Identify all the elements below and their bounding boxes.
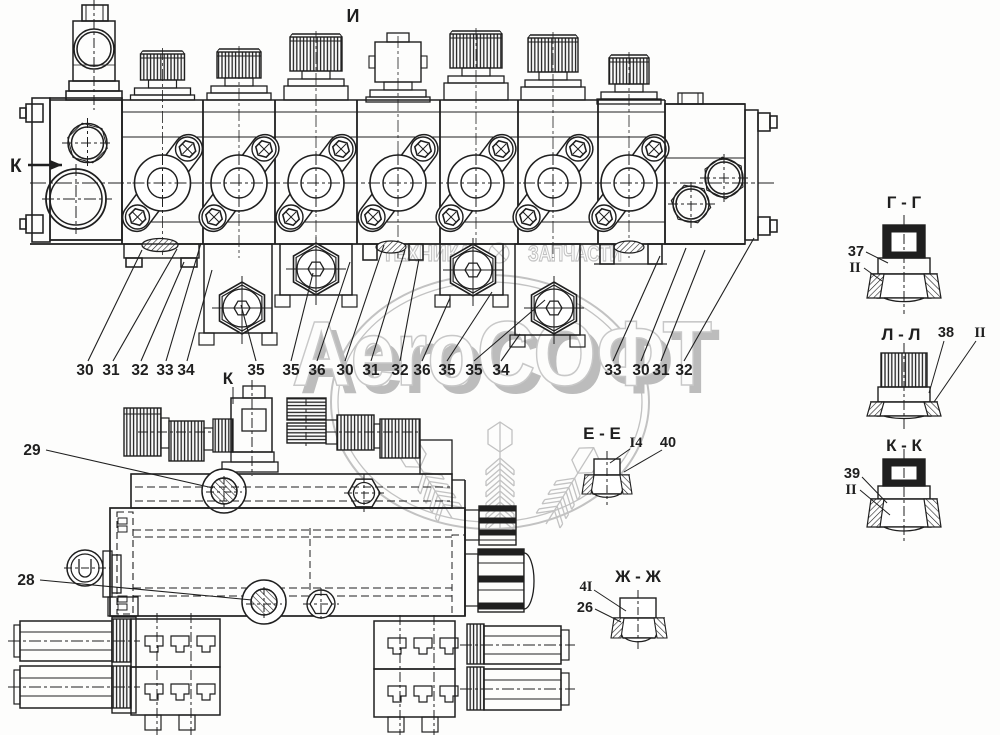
Е-Е plug fitting <box>582 451 632 505</box>
bottom-right cylinders <box>460 624 575 710</box>
svg-text:Г - Г: Г - Г <box>887 193 922 212</box>
section 4 cap <box>366 33 430 258</box>
threaded fitting lower right <box>465 549 534 612</box>
hex bolt on plate <box>344 474 384 512</box>
lower main block <box>110 508 465 616</box>
bottom-right bracket block <box>374 615 458 735</box>
bottom-left cylinder upper <box>8 619 140 662</box>
svg-text:И: И <box>347 6 360 26</box>
svg-text:35: 35 <box>247 362 265 379</box>
left elbow fitting <box>64 550 138 616</box>
left big plug circle <box>42 164 112 234</box>
svg-text:32: 32 <box>131 362 148 379</box>
main valve body <box>30 100 745 244</box>
bottom-left cylinder lower <box>8 666 140 708</box>
boss with bolt 28 <box>242 580 286 624</box>
svg-text:35: 35 <box>438 362 456 379</box>
svg-text:31: 31 <box>652 362 670 379</box>
svg-text:34: 34 <box>177 362 195 379</box>
svg-text:33: 33 <box>156 362 174 379</box>
svg-text:30: 30 <box>76 362 93 379</box>
svg-text:33: 33 <box>604 362 622 379</box>
svg-text:II: II <box>845 482 857 498</box>
section 1 flange <box>117 129 208 237</box>
left small plug circle <box>62 118 113 168</box>
section 7 hatched port <box>594 241 667 264</box>
label K arrow left <box>10 156 62 177</box>
dashed hidden lines <box>135 487 450 501</box>
svg-text:32: 32 <box>675 362 692 379</box>
svg-text:35: 35 <box>465 362 483 379</box>
Ж-Ж plug fitting <box>611 590 667 652</box>
svg-text:37: 37 <box>848 244 864 260</box>
svg-text:26: 26 <box>577 600 593 616</box>
svg-text:35: 35 <box>282 362 300 379</box>
svg-text:АеroСОФТ: АеroСОФТ <box>292 303 712 405</box>
right end block <box>665 93 748 244</box>
section 5 cap <box>444 28 508 258</box>
svg-text:38: 38 <box>938 325 954 341</box>
right end plate <box>745 110 777 240</box>
relief valve assembly <box>66 0 122 110</box>
lower assembly actuator knobs <box>124 408 233 461</box>
section 6 flange <box>508 129 599 237</box>
section 7 cap <box>597 52 661 258</box>
svg-text:4I: 4I <box>580 579 593 595</box>
lower assembly cross valve <box>222 380 278 476</box>
lower assembly knobs right <box>287 398 452 474</box>
watermark wheat ear center <box>486 422 514 534</box>
svg-text:31: 31 <box>362 362 380 379</box>
section 6 cap <box>521 32 585 258</box>
left end plate <box>20 98 122 242</box>
boss with bolt 29 <box>202 469 246 513</box>
callout leader lines top <box>88 238 754 361</box>
section 2 cap <box>207 46 271 258</box>
section 3 lower valve with hex nut <box>275 237 357 307</box>
section 5 lower valve with hex nut <box>435 238 508 307</box>
section 3 flange <box>271 129 362 237</box>
svg-text:31: 31 <box>102 362 120 379</box>
threaded fitting upper right <box>465 506 516 545</box>
lower top plate <box>131 474 465 616</box>
section 4 hatched port <box>363 241 423 260</box>
svg-text:36: 36 <box>308 362 326 379</box>
svg-text:36: 36 <box>413 362 431 379</box>
section 6 lower valve with hex nut <box>510 244 585 347</box>
svg-text:34: 34 <box>492 362 510 379</box>
svg-text:Е - Е: Е - Е <box>583 424 621 443</box>
К-К plug fitting 39 <box>867 449 941 544</box>
watermark wheat ear left <box>392 434 463 525</box>
section 3 cap <box>284 31 348 258</box>
svg-text:30: 30 <box>336 362 353 379</box>
svg-text:К: К <box>10 156 22 177</box>
svg-text:32: 32 <box>391 362 408 379</box>
watermark wheat ear right <box>534 440 605 531</box>
section 7 flange <box>584 129 675 237</box>
section 2 flange <box>194 129 285 237</box>
svg-text:Ж - Ж: Ж - Ж <box>614 567 661 586</box>
bottom-left bracket block <box>131 613 220 735</box>
svg-text:30: 30 <box>632 362 649 379</box>
svg-text:I4: I4 <box>630 435 643 451</box>
hex bolt lower <box>303 588 339 620</box>
svg-text:40: 40 <box>660 435 676 451</box>
svg-text:28: 28 <box>17 572 35 589</box>
Г-Г plug fitting 37 <box>867 215 941 314</box>
bottom-left cylinder plate <box>112 617 136 713</box>
svg-text:Л - Л: Л - Л <box>882 325 921 344</box>
svg-text:К: К <box>223 369 234 388</box>
svg-text:39: 39 <box>844 466 860 482</box>
svg-text:II: II <box>974 325 986 341</box>
section 5 flange <box>431 129 522 237</box>
horizontal axis line <box>30 182 775 184</box>
Л-Л plug fitting 38 <box>867 343 941 429</box>
svg-text:II: II <box>849 260 861 276</box>
svg-text:29: 29 <box>23 442 41 459</box>
section 1 cap <box>131 48 195 258</box>
section 4 flange <box>353 129 444 237</box>
section 1 hatched port <box>124 239 199 268</box>
section 2 lower valve with hex nut <box>199 244 277 345</box>
watermark emblem ellipse <box>331 275 649 529</box>
